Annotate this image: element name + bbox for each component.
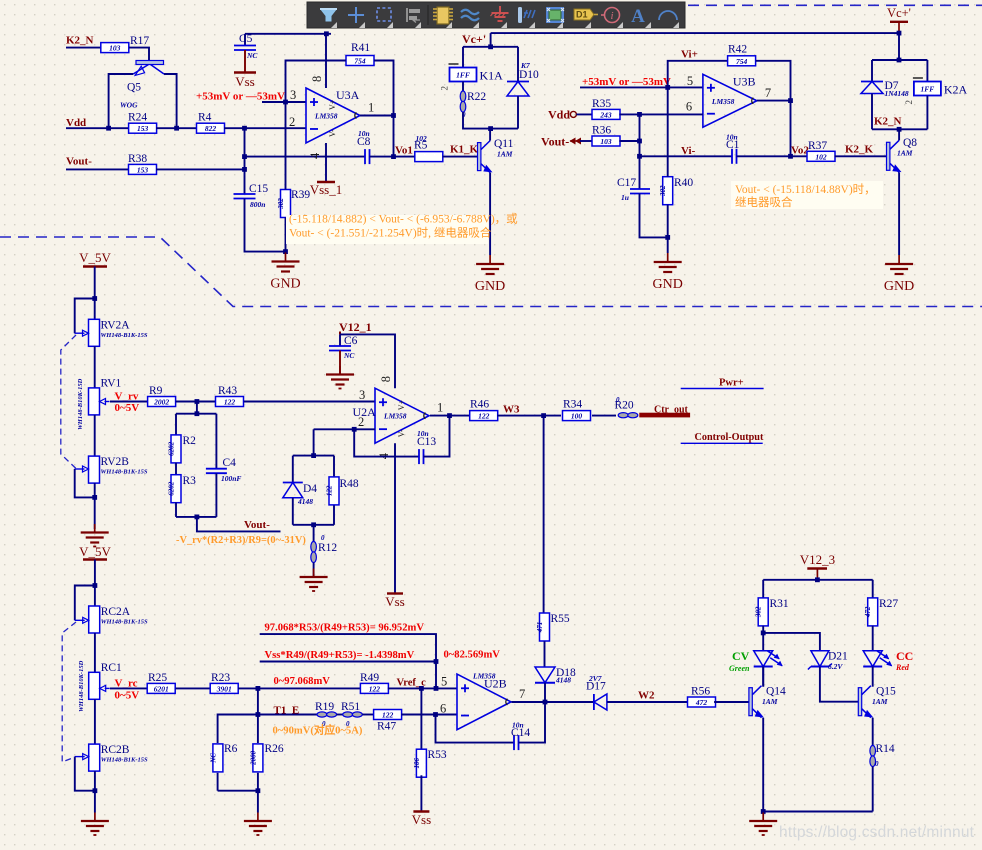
transistor Q15 (Q15) — [858, 686, 896, 718]
potentiometer RC2A (RC2A) — [75, 606, 148, 633]
wire (node riser) — [244, 128, 246, 194]
resistor R14 (R14) — [870, 743, 895, 768]
wire — [791, 155, 808, 157]
wire (wiper bypass) — [75, 469, 95, 497]
svg-text:R31: R31 — [770, 598, 789, 610]
wire — [109, 74, 134, 128]
junction — [761, 631, 766, 636]
svg-text:153: 153 — [137, 124, 149, 133]
potentiometer RC2B (RC2B) — [75, 744, 148, 771]
junction — [761, 809, 766, 814]
wire — [640, 194, 668, 238]
wire — [576, 113, 592, 115]
wire (pin3 node riser) — [285, 102, 287, 190]
svg-text:i: i — [610, 10, 613, 22]
svg-text:R4: R4 — [198, 112, 212, 124]
wire (output drop) — [393, 116, 395, 157]
svg-text:R46: R46 — [470, 399, 489, 411]
wire (wiper bypass) — [75, 586, 95, 621]
junction — [815, 577, 820, 582]
svg-text:RV2B: RV2B — [101, 456, 130, 468]
svg-text:2000: 2000 — [249, 750, 257, 766]
sheet boundary dashed line — [0, 237, 982, 307]
svg-text:Vout-: Vout- — [244, 519, 270, 531]
ground — [81, 524, 109, 547]
wire — [339, 334, 341, 346]
svg-text:Vdd: Vdd — [66, 117, 86, 129]
wire — [313, 563, 315, 578]
potentiometer RC1 (RC1) — [89, 662, 122, 700]
svg-text:U2A: U2A — [353, 405, 377, 419]
wire (pin8 supply) — [340, 334, 395, 388]
sheet boundary dashed line top right — [688, 4, 982, 6]
svg-text:C15: C15 — [249, 183, 268, 195]
svg-text:Control-Output: Control-Output — [695, 432, 764, 443]
wire (R53 riser) — [420, 688, 422, 751]
svg-text:R19: R19 — [315, 701, 334, 713]
wire — [176, 687, 211, 689]
junction — [311, 453, 316, 458]
power port Vss lower — [412, 812, 432, 828]
wire (Q11 collector) — [489, 129, 491, 141]
wire (pin2 row) — [314, 428, 375, 430]
diode None (LED CC) — [863, 651, 892, 667]
wire (fb2) — [260, 661, 436, 663]
wire — [313, 525, 315, 542]
wire (C17 riser) — [639, 114, 641, 189]
diode D17 (D17) — [594, 694, 607, 710]
wire (pin5 row) — [580, 86, 703, 88]
diode D18 (D18) — [535, 667, 576, 685]
svg-text:0: 0 — [616, 396, 620, 404]
wire (Q8 emitter) — [898, 172, 900, 255]
wire — [462, 82, 464, 92]
wire (fb1) — [260, 634, 436, 661]
junction — [543, 700, 548, 705]
svg-text:Vout-: Vout- — [541, 135, 569, 149]
wire — [926, 96, 928, 130]
svg-text:K2_N: K2_N — [66, 35, 94, 47]
resistor R56 — [688, 686, 716, 708]
wire — [285, 218, 287, 252]
wire (K1A top rail) — [463, 46, 518, 48]
junction — [665, 85, 670, 90]
svg-text:https://blog.csdn.net/minnut: https://blog.csdn.net/minnut — [779, 824, 975, 841]
wire — [544, 641, 546, 667]
svg-text:Vss: Vss — [412, 812, 432, 827]
wire — [667, 205, 669, 238]
svg-text:K1A: K1A — [480, 69, 504, 83]
diode D4 (D4) — [283, 483, 318, 507]
diode D10 (D10) — [507, 61, 539, 96]
svg-text:4: 4 — [308, 152, 322, 159]
port Control-Output — [681, 432, 764, 443]
junction — [434, 659, 439, 664]
wire (C8 row) — [245, 156, 366, 158]
svg-text:C8: C8 — [357, 136, 371, 148]
svg-text:R14: R14 — [876, 743, 895, 755]
svg-text:Vout- < (-15.118/14.88V)时，: Vout- < (-15.118/14.88V)时， — [735, 183, 876, 196]
svg-text:LM358: LM358 — [383, 412, 407, 421]
svg-text:0~5V: 0~5V — [115, 690, 140, 702]
junction — [195, 515, 200, 520]
wire (R26 branch) — [257, 715, 259, 744]
wire — [196, 402, 198, 414]
wire (D4R48 top) — [293, 455, 334, 457]
wire (to gnd) — [339, 351, 341, 375]
wire (C13 left) — [354, 429, 419, 456]
toolbar icon: filter funnel — [320, 9, 337, 22]
svg-text:0: 0 — [875, 760, 879, 768]
svg-text:R6: R6 — [224, 743, 238, 755]
svg-text:1AM: 1AM — [897, 149, 913, 158]
junction — [897, 31, 902, 36]
svg-text:RC1: RC1 — [101, 662, 122, 674]
svg-text:R22: R22 — [467, 91, 486, 103]
mechanical link dashed 2 — [62, 622, 76, 762]
svg-text:Vo1: Vo1 — [395, 145, 413, 157]
resistor R55 — [536, 613, 570, 641]
svg-text:R48: R48 — [340, 478, 359, 490]
wire — [737, 155, 791, 157]
svg-text:122: 122 — [369, 684, 381, 693]
toolbar icon: move cross — [348, 7, 364, 23]
wire — [762, 667, 765, 686]
wire — [245, 199, 286, 252]
svg-text:Vout- < (-21.551/-21.254V)时, 继: Vout- < (-21.551/-21.254V)时, 继电器吸合 — [289, 226, 492, 240]
junction — [434, 686, 439, 691]
svg-text:Vc+': Vc+' — [887, 6, 911, 20]
wire — [762, 580, 764, 598]
svg-text:C4: C4 — [223, 457, 237, 469]
svg-text:R38: R38 — [128, 153, 147, 165]
svg-text:D4: D4 — [303, 483, 317, 495]
wire — [94, 483, 96, 529]
wire — [215, 473, 217, 517]
svg-text:1: 1 — [368, 101, 374, 115]
wire — [545, 701, 594, 703]
junction — [324, 31, 329, 36]
svg-text:1u: 1u — [621, 193, 629, 202]
junction — [637, 139, 642, 144]
op-amp U3B (U3B opamp) — [686, 74, 771, 127]
resistor R9 — [148, 385, 176, 407]
junction — [92, 495, 97, 500]
svg-text:754: 754 — [354, 57, 366, 66]
svg-text:WH148-B10K-15D: WH148-B10K-15D — [77, 378, 84, 430]
wire (D4R48 bottom) — [293, 524, 334, 526]
svg-text:103: 103 — [109, 44, 121, 53]
svg-text:C17: C17 — [617, 177, 636, 189]
op-amp U2B (U2B opamp) — [440, 672, 525, 730]
wire (Q8 collector) — [898, 129, 900, 140]
svg-text:RV2A: RV2A — [101, 319, 131, 331]
wire — [450, 415, 471, 417]
wire — [443, 156, 478, 158]
resistor R3 — [167, 475, 196, 503]
wire — [420, 775, 422, 810]
svg-text:6: 6 — [686, 100, 692, 114]
power port Vc+' right — [887, 6, 911, 33]
wire — [872, 626, 874, 651]
wire (pin6 row) — [619, 113, 703, 115]
svg-text:WH148-B1K-15S: WH148-B1K-15S — [101, 619, 148, 626]
wire — [94, 771, 96, 812]
toolbar icon: align — [407, 8, 420, 23]
svg-text:V-: V- — [397, 429, 406, 437]
junction — [283, 249, 288, 254]
wire — [592, 415, 616, 417]
svg-text:CC: CC — [896, 649, 913, 663]
junction — [242, 126, 247, 131]
svg-text:R24: R24 — [128, 112, 147, 124]
svg-text:4148: 4148 — [555, 676, 571, 685]
wire (Vi- row) — [640, 155, 733, 157]
junction — [665, 235, 670, 240]
svg-text:R42: R42 — [728, 44, 747, 56]
resistor R26 — [249, 743, 284, 772]
wire — [257, 791, 259, 813]
svg-text:Vi+: Vi+ — [681, 49, 698, 61]
resistor R35 — [592, 98, 620, 119]
svg-text:1AM: 1AM — [762, 697, 778, 706]
potentiometer RV1 (RV1) — [89, 377, 122, 415]
svg-text:(-15.118/14.882) < Vout- < (-6: (-15.118/14.882) < Vout- < (-6.953/-6.78… — [289, 213, 518, 226]
wire (pin3) — [262, 101, 306, 103]
wire (pin4) — [325, 143, 327, 181]
wire (C14 left) — [436, 715, 515, 743]
svg-text:R12: R12 — [318, 542, 337, 554]
wire (riser) — [898, 33, 900, 60]
svg-text:GND: GND — [884, 279, 914, 294]
resistor R38 — [128, 153, 157, 174]
wire — [66, 168, 129, 170]
svg-text:CV: CV — [732, 649, 750, 663]
resistor R31 — [755, 598, 789, 626]
resistor R25 — [147, 672, 175, 693]
svg-text:122: 122 — [325, 485, 333, 496]
svg-text:3: 3 — [359, 388, 365, 402]
wire — [667, 237, 669, 253]
wire — [94, 560, 96, 607]
svg-text:R40: R40 — [674, 177, 693, 189]
capacitor C5 — [234, 46, 256, 51]
wire — [619, 140, 639, 142]
svg-text:R37: R37 — [808, 140, 827, 152]
svg-text:GND: GND — [475, 279, 505, 294]
wire — [333, 456, 335, 477]
wire (D21 top) — [763, 633, 820, 651]
wire — [762, 626, 764, 651]
wire (output) — [512, 701, 546, 703]
svg-text:0~5V: 0~5V — [115, 402, 140, 414]
wire — [362, 714, 374, 716]
resistor R24 — [128, 112, 157, 134]
toolbar icon: wires — [461, 10, 479, 21]
wire — [94, 699, 96, 744]
svg-text:R35: R35 — [592, 98, 611, 110]
wire — [544, 415, 561, 417]
resistor R34 — [563, 399, 591, 421]
ground — [81, 813, 109, 836]
wire — [175, 463, 177, 475]
potentiometer RV2A (RV2A) — [75, 319, 148, 346]
svg-text:GND: GND — [653, 277, 683, 292]
svg-text:103: 103 — [600, 137, 612, 146]
svg-text:D10: D10 — [519, 69, 539, 81]
op-amp U2A (U2A opamp) — [353, 376, 444, 459]
power port Vss — [234, 73, 256, 90]
wire (wiper bypass) — [75, 299, 95, 334]
svg-text:800n: 800n — [250, 200, 265, 209]
junction — [256, 788, 261, 793]
wire (C14 right) — [519, 702, 546, 743]
svg-text:Q5: Q5 — [127, 82, 141, 94]
svg-text:R47: R47 — [377, 721, 396, 733]
svg-text:R2: R2 — [183, 435, 197, 447]
power port V12_3 — [800, 552, 835, 580]
svg-text:V12_1: V12_1 — [339, 320, 372, 334]
resistor R51 (R51) — [341, 701, 362, 728]
transistor Q11 (Q11) — [478, 138, 514, 173]
capacitor C1 — [732, 149, 737, 164]
wire (R42 right) — [756, 61, 791, 101]
svg-text:Vss: Vss — [385, 594, 405, 609]
wire — [762, 812, 764, 813]
wire — [94, 346, 96, 388]
svg-text:Q14: Q14 — [766, 686, 786, 698]
svg-text:R23: R23 — [211, 672, 230, 684]
wire — [462, 47, 464, 68]
wire — [110, 401, 148, 403]
resistor R49 — [360, 672, 388, 693]
annotation text (orange) 2 — [731, 181, 883, 209]
svg-text:U3B: U3B — [733, 74, 756, 88]
svg-text:2: 2 — [440, 86, 450, 91]
svg-text:1: 1 — [437, 401, 443, 415]
junction — [242, 154, 247, 159]
toolbar icon: part fields — [518, 7, 535, 23]
svg-text:C6: C6 — [344, 335, 358, 347]
wire (pin3 long) — [244, 401, 375, 403]
svg-text:Vc+': Vc+' — [462, 32, 486, 46]
svg-text:1AM: 1AM — [872, 697, 888, 706]
junction — [195, 411, 200, 416]
junction — [92, 296, 97, 301]
capacitor C8 — [365, 149, 370, 164]
power port Vss_1 — [310, 182, 343, 197]
resistor R46 — [470, 399, 498, 421]
svg-text:0: 0 — [321, 534, 325, 542]
junction — [106, 126, 111, 131]
wire (W2 row) — [607, 701, 689, 703]
capacitor C14 — [514, 735, 519, 750]
svg-text:V-: V- — [328, 129, 337, 137]
resistor R42 — [728, 44, 756, 66]
wire — [871, 60, 873, 82]
svg-text:V_5V: V_5V — [79, 250, 111, 265]
resistor R53 — [413, 749, 447, 777]
wire — [497, 415, 543, 417]
junction — [488, 126, 493, 131]
svg-text:7: 7 — [765, 86, 771, 100]
relay coil K2A (K2A) — [904, 78, 968, 105]
wire (R3C4 bottom) — [176, 516, 216, 518]
junction — [419, 686, 424, 691]
junction — [352, 427, 357, 432]
svg-text:Q15: Q15 — [876, 686, 896, 698]
wire — [156, 127, 197, 129]
wire — [176, 401, 215, 403]
svg-text:1N4148: 1N4148 — [885, 89, 909, 98]
svg-text:NC: NC — [209, 753, 217, 764]
wire — [66, 47, 101, 49]
svg-text:GND: GND — [270, 277, 300, 292]
junction — [433, 712, 438, 717]
wire — [762, 667, 764, 687]
wire — [257, 773, 259, 791]
svg-text:472: 472 — [695, 698, 708, 707]
wire — [370, 156, 394, 158]
wire (C13 right) — [424, 416, 450, 457]
wire — [244, 50, 246, 72]
svg-text:R55: R55 — [551, 613, 570, 625]
wire — [175, 503, 177, 517]
junction — [391, 113, 396, 118]
svg-text:2V7: 2V7 — [588, 674, 602, 683]
svg-text:1FF: 1FF — [921, 85, 935, 94]
svg-text:-V_rv*(R2+R3)/R9=(0~-31V): -V_rv*(R2+R3)/R9=(0~-31V) — [176, 535, 306, 546]
mechanical link dashed — [61, 335, 76, 469]
resistor R2 — [167, 435, 196, 463]
svg-text:Q11: Q11 — [494, 138, 514, 150]
resistor R5 — [414, 140, 443, 162]
resistor R39 — [277, 189, 311, 218]
resistor R22 (R22) — [460, 91, 486, 119]
svg-text:LM358: LM358 — [314, 112, 338, 121]
svg-text:V+: V+ — [328, 99, 337, 110]
wire — [129, 48, 149, 61]
svg-text:2002: 2002 — [153, 398, 169, 407]
svg-text:V12_3: V12_3 — [800, 552, 835, 567]
wire (riser) — [490, 33, 492, 47]
svg-text:R25: R25 — [148, 672, 167, 684]
wire (wiper bypass) — [75, 757, 95, 791]
wire (Vout- stub) — [197, 517, 281, 532]
wire — [388, 687, 457, 689]
svg-text:153: 153 — [137, 165, 149, 174]
svg-text:100: 100 — [571, 412, 583, 421]
svg-text:122: 122 — [478, 412, 490, 421]
wire — [333, 505, 335, 524]
resistor R4 — [197, 112, 225, 134]
svg-text:97.068*R53/(R49+R53)= 96.952m: 97.068*R53/(R49+R53)= 96.952mV — [265, 623, 425, 634]
svg-text:6: 6 — [440, 702, 446, 716]
capacitor C13 — [419, 449, 424, 464]
capacitor C4 — [206, 469, 227, 474]
power port V_5V upper — [79, 250, 111, 267]
wire (R2C4 top) — [176, 413, 216, 415]
svg-text:NC: NC — [246, 51, 258, 60]
junction — [897, 58, 902, 63]
wire (V12_3 rail) — [763, 579, 873, 581]
wire (bottom rail) — [763, 811, 873, 813]
wire — [435, 662, 437, 689]
ground — [653, 253, 683, 292]
wire (R41 left) — [286, 61, 347, 103]
svg-text:754: 754 — [736, 57, 748, 66]
wire — [580, 140, 593, 142]
